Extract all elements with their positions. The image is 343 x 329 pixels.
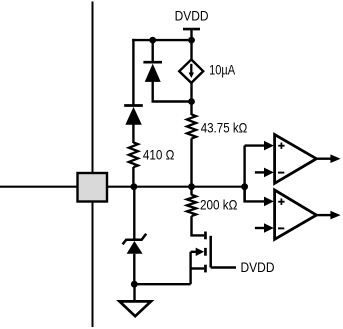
body/source tie vertical	[189, 252, 191, 284]
wire: diode D2 top lead	[132, 39, 134, 105]
wire: diode D2 to resistor 410	[132, 124, 134, 143]
node: clamp rail junction	[188, 98, 195, 105]
wire: diode D1 bottom lead	[151, 82, 153, 102]
wire: comparator U1 - input stub	[255, 168, 274, 178]
node: main wire / divider junction	[188, 183, 195, 190]
op-amp U1	[275, 135, 317, 184]
resistor R 200k	[187, 195, 196, 216]
zener diode DZ	[123, 234, 147, 254]
diode D2	[124, 106, 143, 125]
body contact bar	[204, 248, 207, 256]
wire: current source to resistor 43.75k	[190, 83, 192, 115]
resistor R 410 ohm	[129, 143, 138, 168]
wire: comparator U2 - input stub	[255, 223, 274, 233]
node: top rail / diode D1 junction	[149, 37, 156, 44]
wire: zener to ground node	[133, 254, 135, 284]
source lead	[191, 267, 205, 269]
node: DVDD rail junction	[188, 37, 195, 44]
wire: comparator branch vertical	[243, 146, 245, 202]
source contact bar	[204, 265, 207, 273]
resistor R 43.75k	[187, 114, 196, 138]
wire: ground node to mosfet source	[134, 283, 190, 285]
op-amp U2	[275, 190, 317, 239]
wire: diode D1 top lead	[151, 40, 153, 62]
wire: resistor 410 to main node	[132, 167, 134, 187]
wire: comparator U2 output	[316, 211, 340, 220]
svg-text:DVDD: DVDD	[241, 259, 275, 275]
wire: zener top lead	[133, 187, 135, 240]
svg-text:10µA: 10µA	[209, 62, 236, 78]
wire: down to ground symbol	[133, 284, 135, 301]
node: pad net / zener branch junction	[131, 183, 138, 190]
wire: DVDD to current source	[190, 29, 192, 60]
ground	[120, 301, 152, 316]
power symbol DVDD	[183, 28, 200, 31]
gate bar	[209, 236, 212, 268]
wire: resistor 200k to mosfet drain	[192, 216, 205, 235]
wire: comparator U2 + input	[245, 187, 274, 207]
wire: top rail	[132, 39, 191, 41]
body lead with arrow	[191, 251, 198, 253]
svg-text:43.75 kΩ: 43.75 kΩ	[201, 119, 248, 135]
svg-text:410 Ω: 410 Ω	[143, 146, 175, 162]
wire: comparator U1 output	[316, 154, 340, 163]
node: source/ground junction	[131, 281, 138, 288]
wire: resistor 43.75k to main node	[190, 138, 192, 195]
node: comparator input junction	[241, 183, 248, 190]
transistor M1 (NMOS, gate right)	[191, 232, 211, 285]
wire: external lead into pad	[0, 186, 78, 188]
wire: gate lead	[211, 266, 236, 268]
wire: comparator U1 + input	[245, 141, 274, 151]
wire: bottom rail of clamp	[152, 100, 192, 102]
svg-text:200 kΩ: 200 kΩ	[200, 196, 237, 212]
chip boundary line	[92, 2, 94, 328]
current source I1 10uA	[179, 60, 203, 83]
svg-text:DVDD: DVDD	[175, 8, 209, 24]
drain contact bar	[204, 232, 207, 240]
diode D1	[143, 62, 162, 82]
pad	[78, 173, 108, 202]
wire: pad to comparator node	[107, 186, 245, 188]
